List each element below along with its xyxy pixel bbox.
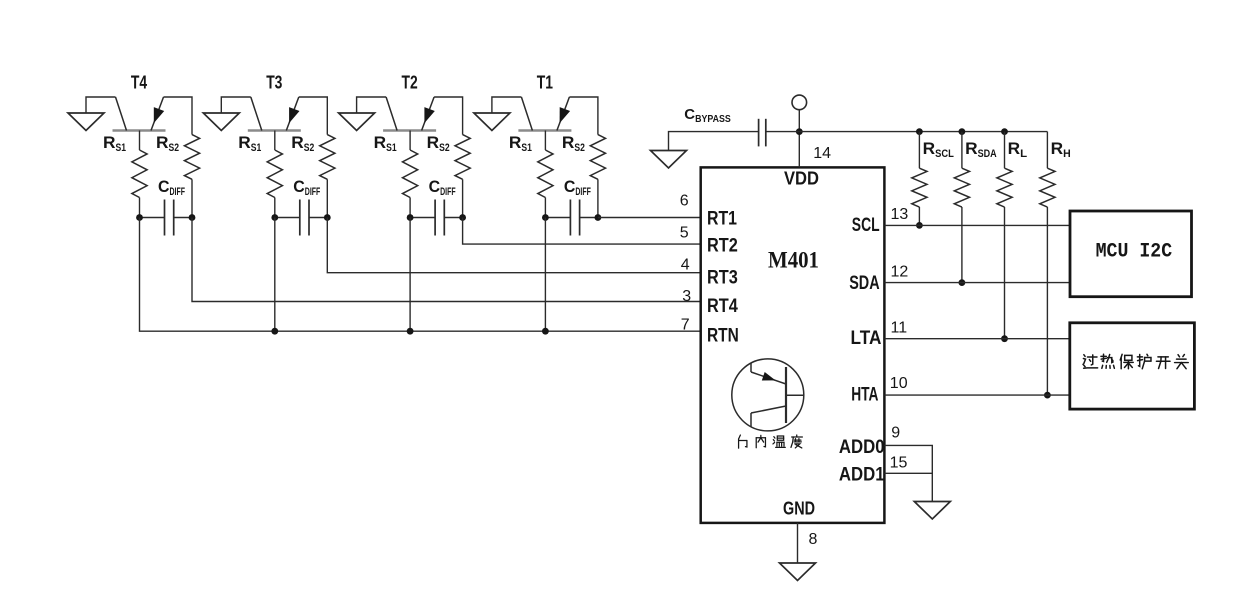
svg-text:GND: GND	[783, 499, 815, 519]
text glyph 度	[791, 435, 802, 448]
wire RS2 bottom (T4)	[191, 179, 193, 217]
junction node (RSDA bottom junction)	[959, 279, 966, 286]
node VDD terminal	[792, 95, 807, 110]
wire T3 emitter to RS2	[299, 97, 328, 135]
svg-text:7: 7	[681, 317, 690, 334]
ground (T2 collector)	[339, 113, 375, 131]
wire T4 collector to ground	[86, 97, 116, 113]
wire RSDA top stub	[961, 132, 963, 169]
wire VDD terminal to pin 14	[798, 110, 800, 168]
svg-text:8: 8	[809, 531, 818, 548]
text glyph 过	[1083, 355, 1098, 368]
svg-text:SDA: SDA	[849, 273, 880, 294]
junction node (RL bottom junction)	[1001, 335, 1008, 342]
text glyph 关	[1175, 354, 1189, 368]
transistor Q internal (on-chip temperature sensor)	[732, 359, 804, 431]
capacitor CDIFF (T2)	[435, 200, 444, 236]
resistor RH	[1040, 168, 1055, 207]
block MCU I2C	[1070, 211, 1192, 297]
ground (T3 collector)	[203, 113, 239, 131]
capacitor CDIFF (T1)	[570, 200, 579, 236]
wire RH top stub	[1046, 132, 1048, 169]
svg-text:3: 3	[682, 288, 691, 305]
wire RSCL bottom wire	[918, 207, 920, 225]
svg-text:T4: T4	[131, 73, 147, 93]
block overheat protection switch	[1070, 323, 1195, 409]
ground (GND pin)	[780, 563, 816, 581]
wire T2 node to RTN	[409, 218, 411, 332]
junction node (T4 RS2/CDIFF node)	[189, 214, 196, 221]
junction node (RL rail tap)	[1001, 128, 1008, 135]
wire T4 emitter to RS2	[164, 97, 193, 135]
resistor RSCL	[912, 168, 927, 207]
resistor RL	[997, 168, 1012, 207]
junction node (T1 RS2/CDIFF node)	[595, 214, 602, 221]
wire CDIFF right to node (T3)	[309, 217, 327, 219]
junction node (RSDA rail tap)	[959, 128, 966, 135]
wire HTA net	[884, 394, 1070, 396]
svg-text:RT2: RT2	[707, 236, 738, 257]
svg-text:MCU I2C: MCU I2C	[1096, 240, 1173, 263]
svg-text:14: 14	[813, 145, 831, 162]
junction node (T1 RS1/CDIFF node)	[542, 214, 549, 221]
junction node (T3 RS1/CDIFF node)	[271, 214, 278, 221]
resistor RS2 (T1)	[590, 135, 605, 180]
wire node to CDIFF left (T2)	[410, 217, 435, 219]
wire CBYPASS to ground	[669, 132, 759, 151]
wire T1 base to RS1	[544, 131, 546, 151]
resistor RS1 (T3)	[267, 150, 282, 198]
text glyph 温	[773, 436, 785, 447]
text glyph 护	[1137, 354, 1151, 368]
svg-text:12: 12	[891, 264, 909, 281]
wire T4 base to RS1	[139, 131, 141, 151]
svg-text:SCL: SCL	[852, 215, 880, 236]
wire ADD1 net	[884, 473, 932, 501]
wire SCL net	[884, 224, 1070, 226]
text glyph 片	[739, 435, 747, 448]
wire VDD rail	[799, 131, 1047, 133]
resistor RS2 (T4)	[184, 135, 199, 180]
resistor RS1 (T1)	[538, 150, 553, 198]
junction node (RSCL bottom junction)	[916, 222, 923, 229]
wire node to CDIFF left (T4)	[140, 217, 165, 219]
ground (T1 collector)	[474, 113, 510, 131]
wire CDIFF right to node (T4)	[174, 217, 192, 219]
wire RSCL top stub	[918, 132, 920, 169]
svg-text:T1: T1	[537, 73, 553, 93]
text glyph 开	[1156, 357, 1170, 369]
junction node (T4 RS1/CDIFF node)	[136, 214, 143, 221]
junction node (T2 RS1/CDIFF node)	[407, 214, 414, 221]
wire RL top stub	[1004, 132, 1006, 169]
wire RS1 bottom (T3)	[274, 198, 276, 218]
svg-text:M401: M401	[768, 248, 819, 274]
text glyph 热	[1101, 354, 1114, 368]
wire node to CDIFF left (T1)	[545, 217, 570, 219]
svg-text:9: 9	[891, 425, 900, 442]
svg-text:HTA: HTA	[851, 385, 879, 406]
svg-text:VDD: VDD	[784, 169, 819, 189]
ground (T4 collector)	[68, 113, 104, 131]
junction node (T3/RTN junction)	[271, 328, 278, 335]
wire T1 node to RTN	[544, 218, 546, 332]
svg-text:RT3: RT3	[707, 268, 738, 289]
wire T3 base to RS1	[274, 131, 276, 151]
transistor T1	[518, 97, 571, 131]
wire CDIFF right to node (T1)	[580, 217, 598, 219]
junction node (T2 RS2/CDIFF node)	[459, 214, 466, 221]
ground (CBYPASS)	[651, 151, 687, 169]
capacitor CDIFF (T4)	[165, 200, 174, 236]
wire T1 emitter to RS2	[569, 97, 598, 135]
junction node (VDD rail junction)	[796, 128, 803, 135]
ground (ADD0/ADD1)	[914, 502, 950, 520]
wire RS1 bottom (T2)	[409, 198, 411, 218]
transistor T4	[113, 97, 166, 131]
op-amp/IC U1 M401 body	[701, 167, 885, 523]
svg-text:ADD0: ADD0	[839, 437, 885, 458]
svg-text:11: 11	[891, 319, 908, 336]
svg-text:13: 13	[891, 206, 909, 223]
wire RTN net (T4 to pin 7)	[140, 218, 701, 332]
svg-text:RT1: RT1	[707, 208, 737, 229]
wire RS2 bottom (T2)	[462, 179, 464, 217]
wire GND pin 8 net	[797, 523, 799, 563]
wire RT2 net (T2 to pin 5)	[463, 218, 701, 245]
junction node (T1/RTN junction)	[542, 328, 549, 335]
wire RS1 bottom (T1)	[544, 198, 546, 218]
wire RT1 net (T1 to pin 6)	[598, 217, 701, 219]
wire T2 base to RS1	[409, 131, 411, 151]
transistor T2	[383, 97, 436, 131]
wire RSDA bottom wire	[961, 207, 963, 283]
resistor RS1 (T2)	[403, 150, 418, 198]
wire node to CDIFF left (T3)	[275, 217, 300, 219]
resistor RS2 (T3)	[320, 135, 335, 180]
text glyph 内	[756, 435, 765, 447]
wire CDIFF right to node (T2)	[444, 217, 462, 219]
wire RT4 net (T4 to pin 3)	[192, 218, 701, 302]
resistor RSDA	[954, 168, 969, 207]
transistor T3	[248, 97, 301, 131]
junction node (T3 RS2/CDIFF node)	[324, 214, 331, 221]
wire CBYPASS to VDD	[766, 131, 800, 133]
svg-text:RTN: RTN	[707, 325, 739, 346]
wire LTA net	[884, 338, 1070, 340]
capacitor CDIFF (T3)	[300, 200, 309, 236]
wire RS2 bottom (T3)	[326, 179, 328, 217]
wire RT3 net (T3 to pin 4)	[327, 218, 700, 273]
wire T3 collector to ground	[221, 97, 251, 113]
svg-text:RT4: RT4	[707, 296, 738, 317]
svg-text:15: 15	[890, 455, 908, 472]
wire ADD0 net	[884, 445, 932, 473]
wire SDA net	[884, 282, 1070, 284]
svg-text:5: 5	[680, 225, 689, 242]
wire RS1 bottom (T4)	[139, 198, 141, 218]
resistor RS1 (T4)	[132, 150, 147, 198]
svg-text:T2: T2	[402, 73, 418, 93]
svg-text:6: 6	[680, 193, 689, 210]
wire RH bottom wire	[1046, 207, 1048, 395]
text glyph 保	[1120, 354, 1133, 368]
resistor RS2 (T2)	[455, 135, 470, 180]
wire RL bottom wire	[1004, 207, 1006, 339]
wire T1 collector to ground	[492, 97, 522, 113]
wire RS2 bottom (T1)	[597, 179, 599, 217]
wire T2 emitter to RS2	[434, 97, 463, 135]
svg-text:LTA: LTA	[851, 328, 882, 349]
svg-text:10: 10	[890, 375, 908, 392]
wire T3 node to RTN	[274, 218, 276, 332]
wire T2 collector to ground	[357, 97, 387, 113]
junction node (T2/RTN junction)	[407, 328, 414, 335]
svg-text:ADD1: ADD1	[839, 465, 885, 486]
capacitor CBYPASS	[759, 119, 766, 147]
junction node (RSCL rail tap)	[916, 128, 923, 135]
junction node (RH bottom junction)	[1044, 392, 1051, 399]
svg-text:4: 4	[681, 257, 690, 274]
svg-text:T3: T3	[266, 73, 282, 93]
